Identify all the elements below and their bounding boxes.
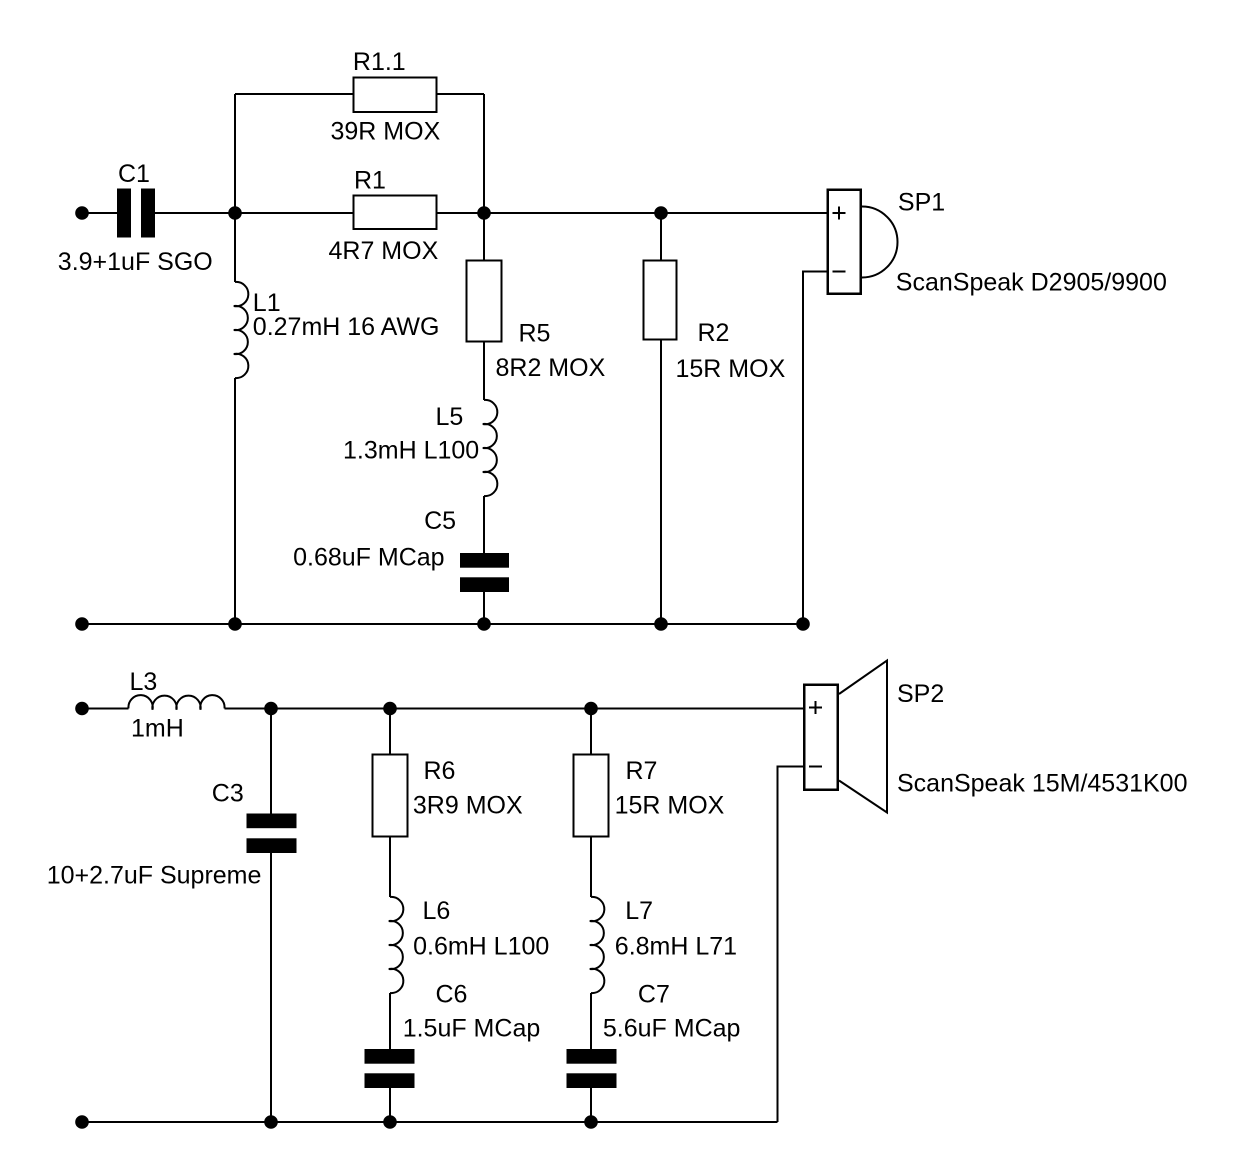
svg-text:15R MOX: 15R MOX (676, 355, 786, 383)
svg-text:R1.1: R1.1 (353, 48, 406, 76)
svg-text:5.6uF MCap: 5.6uF MCap (603, 1015, 741, 1043)
svg-text:0.6mH L100: 0.6mH L100 (413, 933, 549, 961)
svg-text:1.3mH L100: 1.3mH L100 (343, 437, 479, 465)
svg-text:6.8mH L71: 6.8mH L71 (615, 933, 737, 961)
svg-text:L6: L6 (423, 897, 451, 925)
svg-text:C3: C3 (212, 780, 244, 808)
svg-text:39R MOX: 39R MOX (331, 118, 441, 146)
svg-text:R5: R5 (519, 320, 551, 348)
svg-text:R7: R7 (626, 757, 658, 785)
svg-text:1.5uF MCap: 1.5uF MCap (403, 1015, 541, 1043)
svg-text:1mH: 1mH (131, 715, 184, 743)
svg-text:R2: R2 (698, 319, 730, 347)
svg-text:10+2.7uF Supreme: 10+2.7uF Supreme (47, 862, 262, 890)
svg-text:L7: L7 (625, 897, 653, 925)
svg-text:C5: C5 (424, 507, 456, 535)
svg-text:0.27mH 16 AWG: 0.27mH 16 AWG (253, 313, 440, 341)
svg-text:ScanSpeak D2905/9900: ScanSpeak D2905/9900 (896, 269, 1167, 297)
svg-text:SP2: SP2 (897, 680, 944, 708)
svg-text:L5: L5 (436, 403, 464, 431)
svg-text:8R2 MOX: 8R2 MOX (496, 354, 606, 382)
svg-text:R6: R6 (424, 757, 456, 785)
svg-text:4R7 MOX: 4R7 MOX (329, 237, 439, 265)
svg-text:ScanSpeak 15M/4531K00: ScanSpeak 15M/4531K00 (897, 770, 1188, 798)
svg-text:C7: C7 (638, 981, 670, 1009)
svg-text:3R9 MOX: 3R9 MOX (413, 792, 523, 820)
svg-text:L3: L3 (130, 668, 158, 696)
svg-text:0.68uF MCap: 0.68uF MCap (293, 544, 444, 572)
svg-text:C6: C6 (436, 981, 468, 1009)
svg-text:15R MOX: 15R MOX (615, 792, 725, 820)
svg-text:SP1: SP1 (898, 189, 945, 217)
svg-text:C1: C1 (118, 160, 150, 188)
svg-text:R1: R1 (354, 167, 386, 195)
svg-text:3.9+1uF SGO: 3.9+1uF SGO (58, 248, 213, 276)
